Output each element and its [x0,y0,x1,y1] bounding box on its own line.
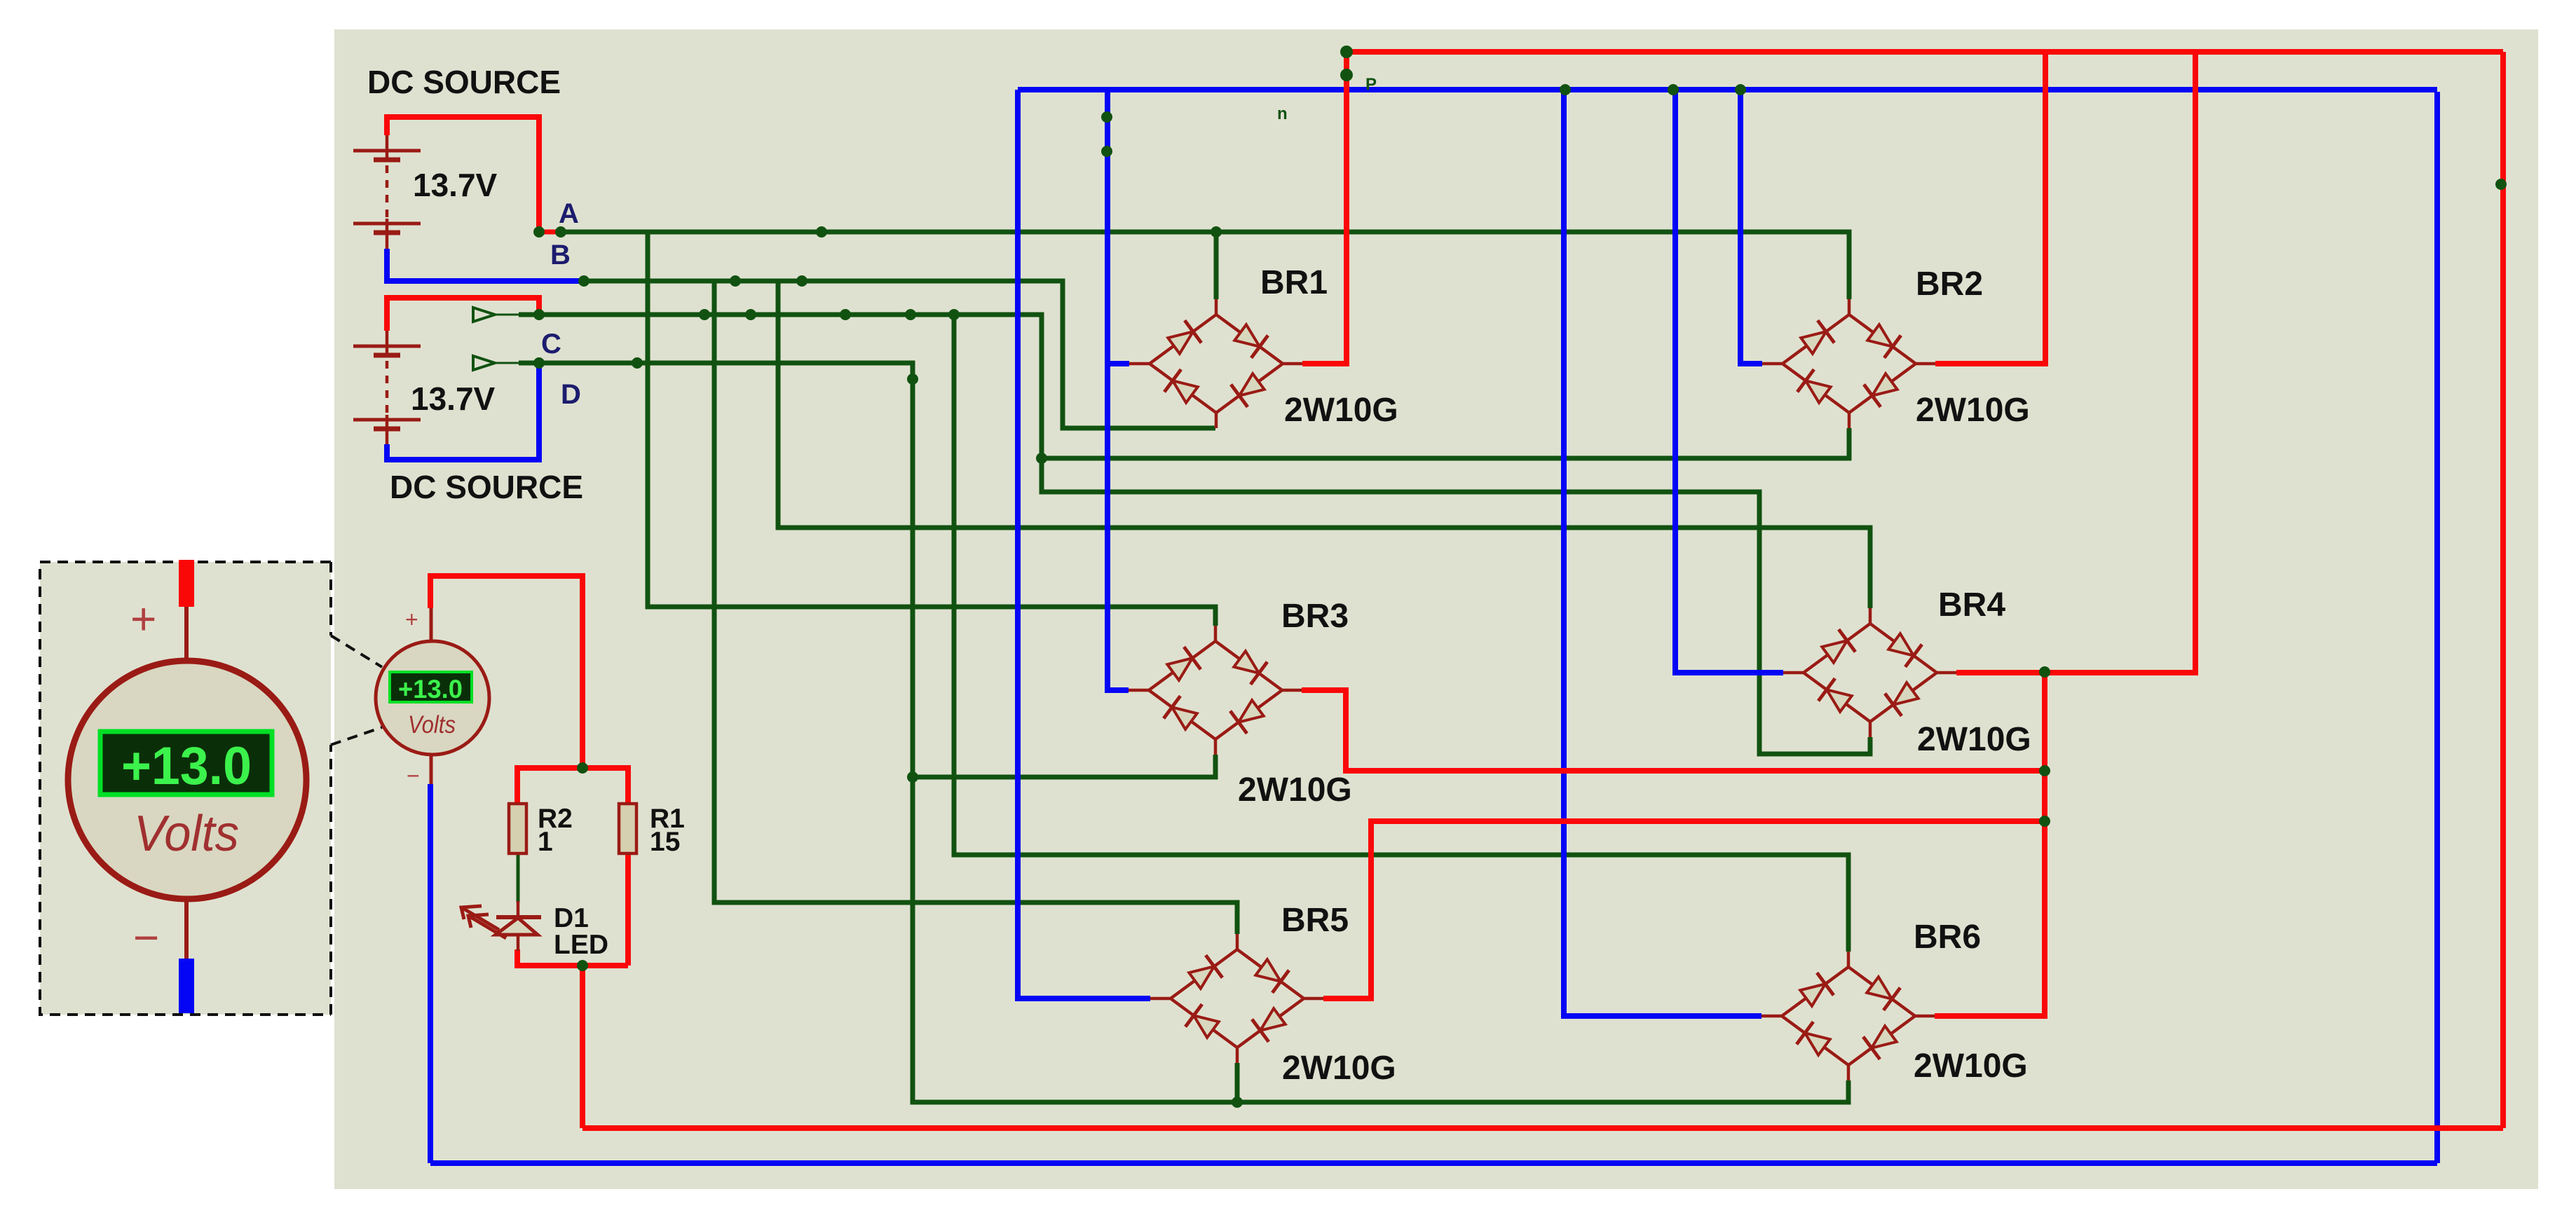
pin lead net D [495,362,520,364]
magnified voltmeter dashed callout box [40,562,331,1015]
bridge rectifier BR2 [1762,299,1935,428]
wire DC source2 minus to D [387,364,539,460]
svg-text:Volts: Volts [134,806,239,862]
svg-text:BR1: BR1 [1260,264,1328,301]
svg-text:2W10G: 2W10G [1282,1050,1396,1087]
wire DC source2 plus to C [387,298,539,331]
bridge rectifier BR3 [1129,626,1302,755]
svg-text:BR2: BR2 [1916,266,1983,303]
small voltmeter terminal bottom [430,754,433,784]
svg-text:2W10G: 2W10G [1917,721,2031,758]
svg-text:P: P [1365,75,1377,94]
svg-text:DC SOURCE: DC SOURCE [367,64,561,100]
wire C branch to BR6 top [954,315,1848,952]
svg-text:BR5: BR5 [1281,902,1349,939]
wire R1 bottom [625,853,631,966]
svg-text:15: 15 [650,827,680,857]
resistor R1 [619,804,636,853]
big voltmeter terminal top [179,560,194,607]
pin arrow net D [473,356,495,370]
small voltmeter body [376,641,489,755]
svg-text:D: D [561,379,581,410]
bridge rectifier BR1 [1129,299,1302,428]
resistor R2 [509,804,526,853]
svg-text:BR6: BR6 [1914,919,1981,956]
pin lead net C [495,314,520,316]
svg-text:A: A [559,198,579,229]
svg-text:−: − [133,912,159,963]
svg-text:2W10G: 2W10G [1284,392,1398,429]
wire voltmeter minus [428,784,433,1163]
svg-text:+13.0: +13.0 [121,736,252,796]
wire R2 to LED [517,853,520,902]
wire B branch to BR4 top [778,281,1870,608]
svg-text:−: − [407,763,420,788]
callout diagonal bottom [331,727,382,745]
wire BR4 right to top bus riser [1956,52,2195,673]
svg-text:13.7V: 13.7V [413,167,498,203]
wire A to BR1 top [1214,232,1219,299]
battery DC SOURCE 1 [353,135,421,249]
bridge rectifier BR4 [1783,608,1956,737]
wire red right side drop [2500,52,2506,1128]
small voltmeter terminal top [430,608,433,642]
wire blue riser to BR2 left [1740,90,1762,364]
svg-text:2W10G: 2W10G [1916,392,2030,429]
red bottom bus wire [582,1125,2503,1131]
callout diagonal top [331,636,382,667]
svg-text:D1: D1 [554,903,589,933]
net C bus wire to BR4 bottom [519,315,1870,754]
big voltmeter body [68,661,306,899]
wire bottom junction to red bus [580,966,585,1128]
wire blue bus to BR5 left [1018,90,1150,998]
wire BR5 bottom [1235,1063,1240,1102]
bridge rectifier BR5 [1150,934,1323,1063]
svg-text:B: B [550,240,571,270]
svg-text:BR3: BR3 [1281,598,1349,635]
svg-text:2W10G: 2W10G [1238,771,1352,809]
wire BR5 right to node [1323,821,2045,998]
wire A branch down to BR3 top [648,232,1215,626]
wire BR2 bottom to net C [1042,428,1849,458]
wire blue riser to BR6 left [1564,90,1761,1016]
wire BR2 right to top bus [1935,52,2045,364]
LED D1 [461,901,541,951]
svg-text:DC SOURCE: DC SOURCE [390,469,583,505]
blue top bus wire [1018,87,2437,92]
wire blue right side drop [2434,92,2440,1163]
wire blue riser to BR4 left [1675,90,1783,673]
svg-text:+13.0: +13.0 [398,675,463,703]
wire red node drop to BR6 right [1935,672,2045,1016]
wire blue branch BR1 left [1108,361,1129,366]
svg-text:C: C [541,329,561,359]
svg-text:LED: LED [554,930,608,960]
wire voltmeter plus [430,576,582,768]
svg-text:13.7V: 13.7V [411,380,496,417]
svg-text:1: 1 [538,827,553,857]
blue bottom bus wire [430,1160,2437,1166]
net D bus wire to BR6 bottom [519,363,1848,1102]
pin arrow net C [473,308,495,322]
wire resistor top rail [517,768,628,804]
net A bus wire [561,232,1849,299]
pin stub net A [539,230,561,235]
svg-text:Volts: Volts [408,711,456,739]
wire BR1 right to top bus [1302,52,1347,364]
big voltmeter terminal bottom [184,899,189,959]
wire blue riser to BR1 left and BR3 left [1108,90,1129,690]
battery DC SOURCE 2 [353,331,421,444]
wire BR3 bottom to net D [913,755,1215,777]
svg-text:2W10G: 2W10G [1914,1048,2028,1085]
svg-text:+: + [130,593,156,644]
svg-text:BR4: BR4 [1938,586,2005,624]
wire DC source1 plus to A [387,117,539,232]
bridge rectifier BR6 [1761,952,1935,1080]
wire BR3 right to node [1302,690,2045,771]
red top bus wire [1347,49,2503,55]
big voltmeter LCD [100,732,272,795]
svg-text:+: + [405,607,418,632]
small voltmeter LCD [390,672,472,702]
wire B branch to BR5 top [714,281,1237,934]
wire LED bottom rail [517,949,628,966]
svg-text:n: n [1277,104,1288,123]
net B bus wire to BR1 bottom [582,281,1215,428]
wire DC source1 minus to B [387,249,580,281]
